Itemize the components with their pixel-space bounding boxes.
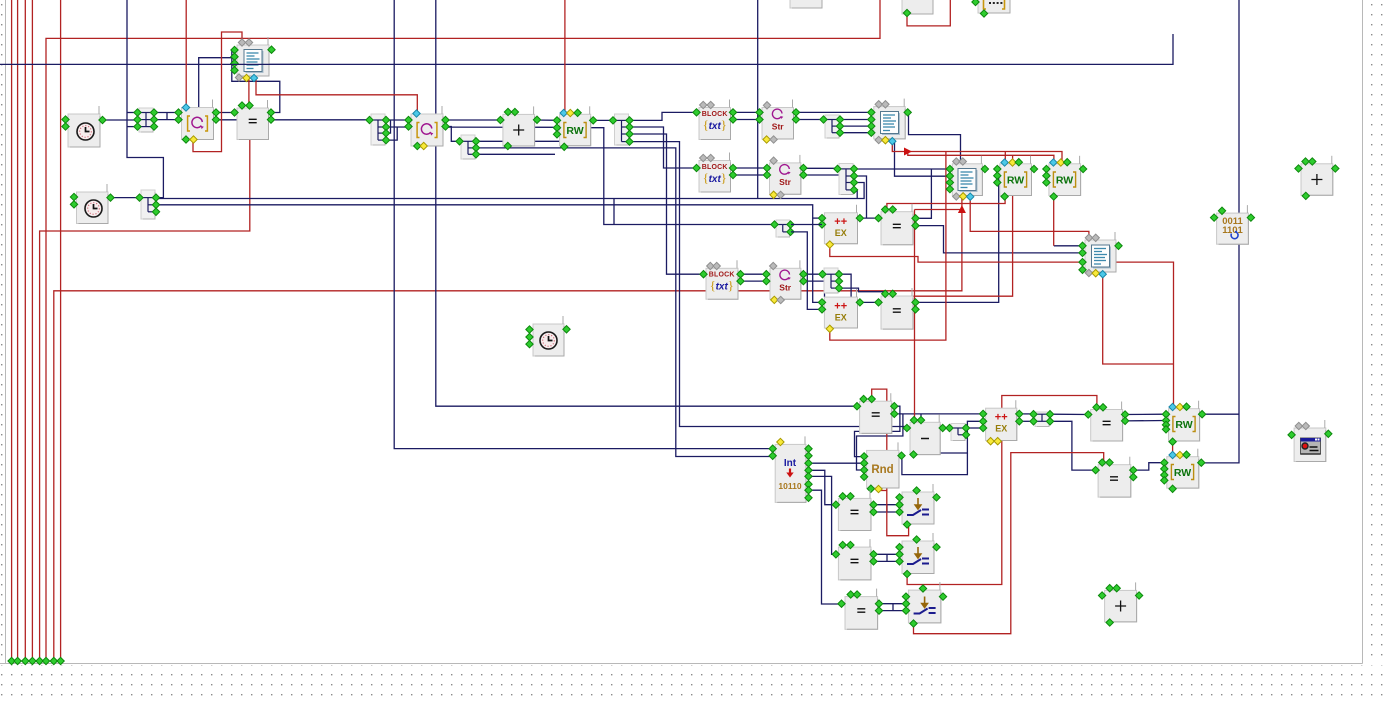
wire navy stub to junction J1 row1	[127, 112, 137, 114]
wire navy equals U38 to switch U39 row1	[879, 603, 906, 605]
wire navy equals U40 to RW U41 row2	[1124, 420, 1165, 422]
document block U14	[874, 107, 905, 139]
wire red branch to RW U23 cyan	[1004, 152, 1006, 162]
binary block U27	[1217, 213, 1249, 244]
wire navy J8 row2 to EX U17 pin2	[791, 232, 822, 310]
svg-text:Int: Int	[784, 458, 797, 469]
wire navy RW U9 pin2 down-bus to junction J8	[591, 128, 772, 225]
BLOCK txt U20	[706, 268, 738, 299]
clock U1	[68, 114, 100, 147]
svg-text:RW: RW	[1007, 175, 1024, 187]
RW block U43	[1167, 457, 1199, 488]
wire navy equals U36 to switch U37 row1	[873, 553, 901, 555]
RW block U41	[1169, 409, 1200, 441]
wire navy equals U16 pin2 to doc U25 pin2	[915, 226, 1082, 253]
svg-text:Rnd: Rnd	[871, 464, 893, 476]
wire navy J3 row2 long bus to Int U30 pin2	[477, 148, 773, 457]
wire navy J9 bottom stub to EX U17	[824, 292, 826, 297]
wire navy J4 row4 long to subtract U28	[630, 142, 908, 428]
wire navy loop U4 to comparator U5	[214, 112, 237, 114]
svg-text:RW: RW	[1174, 467, 1191, 479]
wire navy J4 row2 to BLOCK U12	[630, 127, 695, 168]
wire navy U38-U39 crossbar	[892, 604, 894, 611]
partial block U47 top	[902, 0, 933, 14]
sheet border right edge	[1362, 0, 1364, 664]
wire red Rnd U31 yellow stub	[879, 489, 887, 491]
add block U45 bottom	[1105, 590, 1137, 622]
wire red left riser 6 to top edge	[46, 0, 880, 661]
wire navy J6 row3 to doc U14	[841, 132, 871, 134]
comparator U5 equals	[237, 108, 269, 140]
wire red switch U39 bottom to equals U42 top	[914, 453, 1104, 634]
switch block U35	[902, 492, 934, 524]
array block U48 top	[978, 0, 1010, 13]
junction J5	[141, 190, 155, 219]
wire red RW U41 bottom to RW U43 cyan	[1172, 442, 1174, 456]
wire navy subtract U28 to junction J10	[942, 427, 950, 429]
wire navy branch riser x=758 to top edge	[757, 0, 759, 199]
wire navy EX U17 to equals U18	[859, 301, 877, 303]
wire navy equals U18 to RW U23 pin2	[915, 178, 999, 303]
equals block U42	[1098, 465, 1131, 497]
wire navy N1 overlay across doc U3	[230, 63, 300, 65]
wire navy J2 to loop U7 row1	[385, 119, 411, 121]
wire navy equals U38 to switch U39 row2	[879, 610, 906, 612]
BLOCK txt U10	[699, 108, 731, 140]
wire navy J10 row1 to EX U33 pin3	[967, 427, 983, 429]
wire navy Int U30 pin4 to equals U34	[808, 470, 835, 504]
svg-text:++: ++	[834, 301, 847, 313]
wire red doc U25 pin3 stub	[1081, 261, 1083, 263]
wire navy N1 long bus y=64	[0, 34, 1173, 64]
svg-text:Str: Str	[779, 177, 792, 187]
wire navy doc U3 pin2 to loop U4 top	[199, 58, 236, 108]
wire navy RW U9 bottom stub	[563, 146, 565, 148]
wire navy long bus J5 row1 to junction J7 with riser to top	[155, 183, 864, 199]
wire navy stub junction J1 row3	[127, 126, 137, 128]
wire navy J1-Q1 crossbar	[166, 113, 168, 120]
wire navy J7 row2 to EX/equals tee	[855, 176, 867, 218]
wire navy J2 row2 bus to RW U9 pin2	[385, 126, 560, 128]
junction J4	[615, 114, 629, 145]
subtract block U28	[910, 422, 940, 454]
wire navy Int U30 pin7 to equals U38	[808, 490, 841, 604]
svg-text:}: }	[728, 278, 734, 293]
wire navy RW U41 right to riser	[1201, 413, 1239, 415]
svg-text:RW: RW	[566, 125, 583, 137]
wire navy long riser x=436 to equals U26 input	[436, 0, 857, 406]
wireless arrow marker A2	[958, 205, 966, 213]
document block U3	[237, 45, 269, 76]
wire navy EX U33 to junction J11 row1	[1018, 413, 1031, 415]
svg-text:10110: 10110	[778, 481, 801, 491]
junction J11	[1035, 412, 1049, 427]
svg-text:txt: txt	[709, 121, 722, 132]
wire navy long bus J5 row2 to EX U15 and EX U17	[155, 205, 823, 303]
RW block U24	[1049, 164, 1081, 196]
junction J1	[139, 108, 153, 132]
wire navy clock U2 to junction J5	[108, 197, 137, 199]
svg-text:++: ++	[834, 216, 847, 228]
wire navy J3 row1 to RW U9 edge	[477, 140, 560, 142]
wire navy RW U24 bottom junction to doc U25 pin1	[1054, 245, 1081, 247]
svg-text:EX: EX	[995, 424, 1007, 434]
add block U29 top right	[1301, 164, 1333, 196]
Str block U13	[770, 163, 801, 194]
wire navy add U8 to RW U9	[535, 119, 560, 121]
wire navy J4 row3 to BLOCK U20	[630, 134, 702, 274]
wire navy equals U40 to RW U41 row1	[1124, 413, 1165, 415]
svg-text:txt: txt	[709, 174, 722, 185]
wire navy equals U34 to switch U35 row1	[873, 504, 901, 506]
workspace dot grid left strip	[0, 0, 5, 663]
workspace dot grid bottom strip	[0, 665, 1389, 703]
wire red equals U26 top loop down to switch U35 bottom	[872, 389, 909, 536]
wire navy doc U14 right to doc U22 top	[905, 112, 960, 161]
BLOCK txt U12	[699, 161, 731, 193]
wire navy J10 row2 net to subtract bottom and Rnd right	[914, 435, 968, 453]
EX block U17	[824, 297, 857, 328]
wire red branch down to equals U18 top pin2	[893, 155, 1013, 296]
wire navy J11 row2 to equals U42	[1051, 421, 1096, 470]
clock U19	[533, 324, 564, 356]
wire red riser to RW U9 top pins	[564, 0, 566, 113]
switch block U37	[902, 541, 934, 574]
EX block U33	[986, 408, 1017, 440]
document block U25	[1085, 240, 1116, 272]
wire navy branch to Rnd U31 right pin	[901, 453, 968, 475]
wire navy RW U9 to junction J4	[591, 119, 613, 121]
wire navy EX U33 to junction J11 row2	[1018, 420, 1031, 422]
wire red branch to doc U25 cyan pin	[1103, 274, 1174, 365]
wire red doc U3 yellow pin to comparator U5 top	[248, 76, 250, 106]
wire red second bus to RW U24 cyan	[908, 152, 1054, 162]
wire red left riser 5 to comparator U5 bottom	[40, 140, 250, 662]
wire navy Str U21 row2 to J9 edge	[803, 280, 824, 282]
wire navy EX U15 to equals U16	[859, 217, 877, 219]
wire red left riser 3	[24, 0, 26, 661]
svg-text:RW: RW	[1056, 175, 1073, 187]
wire navy long riser x=1239 to RW U43 right	[1200, 0, 1239, 463]
equals block U26	[860, 401, 892, 433]
RW block U23	[1000, 164, 1032, 196]
sheet border left edge	[5, 0, 7, 664]
junction J2	[371, 114, 385, 145]
wire navy doc U14 bottom to doc U22 pin2	[895, 140, 948, 176]
wire navy Str U11 to doc U14 row1	[796, 111, 871, 113]
wire navy loop U4 row2 bus to junction J2	[214, 119, 369, 121]
svg-text:Str: Str	[772, 122, 785, 132]
wire navy BLOCK U20 to Str U21 row2	[740, 280, 765, 282]
wire red left riser 4	[31, 0, 33, 661]
loop block U4	[182, 108, 214, 140]
EX block U15	[824, 213, 857, 244]
wire navy subtract U28 top pin2 stub	[920, 414, 922, 420]
wire red left riser 8	[60, 0, 62, 661]
wire navy J1 to loop U4 row1	[152, 112, 178, 114]
wire navy J8 row1 to EX U15 pin2	[791, 224, 822, 226]
equals block U16	[881, 212, 913, 245]
wire navy loop U7 pin2 jog to junction J3	[443, 127, 457, 142]
svg-text:Str: Str	[779, 283, 792, 293]
junction J3	[461, 135, 475, 159]
wire navy Int U30 pin5 to equals U36	[808, 476, 835, 554]
wire red up-arrow branch to subtract U28 top	[915, 209, 962, 211]
window block U44	[1294, 428, 1326, 462]
bottom wire end diamonds	[8, 657, 15, 664]
wire navy BLOCK U10 to Str U11 row2	[731, 119, 760, 121]
wire navy J9 row1 into EX U17 top	[840, 274, 852, 297]
wire navy equals U42 to RW U43	[1132, 463, 1165, 470]
switch block U39	[908, 590, 941, 623]
add block U8	[503, 114, 535, 146]
svg-text:}: }	[721, 170, 727, 185]
wire red top block U46 link	[907, 0, 950, 26]
wire red doc U22 cyan to doc U25 gray pin	[970, 197, 1089, 239]
RW block U9	[560, 114, 591, 145]
wire navy BLOCK U12 to Str U13 row1	[731, 167, 766, 169]
wire navy T-branch to equals U16 right pin1	[915, 169, 932, 218]
wire navy J7 row1 to doc U22 pin1	[855, 168, 948, 170]
wire red left riser 1	[11, 0, 13, 661]
wire navy J3 row3 dangling	[477, 153, 556, 155]
wire navy Str U13 to junction J7	[803, 167, 836, 169]
wire navy J6 row2 to doc U14	[841, 125, 871, 127]
sheet border bottom edge	[0, 663, 1363, 665]
wire navy doc U3 pin1 to comparator U5 right	[232, 50, 280, 113]
wire red doc U3 gray pin to loop U4 yellow pin	[193, 32, 242, 152]
junction J9	[824, 268, 838, 293]
loop block U7	[411, 114, 443, 146]
svg-text:1101: 1101	[1222, 225, 1243, 236]
wire navy BLOCK U20 to Str U21 row1	[740, 273, 765, 275]
svg-text:++: ++	[995, 412, 1008, 424]
wire navy U34-U35 crossbar	[886, 505, 888, 512]
wire navy J11 row1 to equals U40	[1051, 413, 1089, 415]
wire navy equals U26 right wrap to Rnd U31 pin1	[855, 406, 900, 456]
wire navy clock U1 to junction J1	[100, 119, 137, 121]
wire navy add U8 bottom stub	[507, 146, 509, 148]
svg-text:EX: EX	[835, 313, 847, 323]
wire navy equals U26 pin2 to EX U33 pin1	[894, 413, 983, 415]
wire navy branch up to EX U33 pin2	[967, 421, 982, 435]
wire navy J7 pin4 stub	[853, 190, 857, 199]
wire navy Str U21 to junction J9	[803, 273, 822, 275]
svg-text:txt: txt	[716, 282, 729, 293]
wire navy Str U11 to junction J6	[796, 119, 822, 121]
wire red EX U15 yellow to doc U25 pin3 bus	[830, 244, 1174, 407]
wireless arrow marker A1	[904, 148, 912, 156]
clock U2	[77, 192, 109, 224]
wire navy x=127 riser to junction J5	[127, 0, 163, 198]
wire red RW U23 bottom to equals U16 top	[887, 197, 1005, 210]
wire navy equals U36 to switch U37 row2	[873, 560, 901, 562]
equals block U34	[838, 498, 871, 530]
Str block U11	[762, 108, 794, 140]
Str block U21	[770, 268, 801, 299]
wire navy long riser x=394 to Int U30 pin1	[394, 0, 772, 449]
wire navy stub to EX U15 pin1	[813, 217, 824, 219]
equals block U36	[838, 547, 871, 580]
wire navy J2 pin3 jog	[385, 120, 391, 133]
wire red RW U24 bottom down	[1053, 197, 1055, 246]
partial block U46 top	[790, 0, 822, 8]
junction J8	[776, 220, 790, 237]
wire red left riser 7 to text-file U22 yellow pin	[54, 195, 962, 661]
junction J7	[839, 164, 853, 195]
equals block U40	[1091, 410, 1123, 442]
wire navy J2 pin4 jog	[385, 127, 397, 140]
wire navy loop U7 to add U8	[443, 119, 502, 121]
wire red doc U14 cyan net to RW tops	[892, 141, 1062, 162]
wire red branch to EX U17 yellow	[830, 152, 946, 341]
wire navy crosslink x=614	[613, 199, 615, 225]
wire navy BLOCK U10 to Str U11 row1	[731, 111, 760, 113]
workspace dot grid right strip	[1364, 0, 1389, 663]
junction J6	[825, 115, 839, 138]
equals block U38	[845, 597, 878, 630]
equals block U18	[881, 296, 913, 329]
wire navy U36-U37 crossbar	[886, 554, 888, 561]
Int block U30	[775, 444, 806, 502]
wire navy BLOCK U12 to Str U13 row2	[731, 174, 766, 176]
wire navy J9 row3 to equals U18 top pin	[840, 288, 886, 294]
wire navy Str U13 row2 to J7 edge	[803, 174, 840, 176]
document block U22	[952, 164, 982, 196]
wire navy J4 row1 to BLOCK U10	[630, 112, 695, 120]
wire navy Int U30 pin3 to Rnd U31 pin2	[808, 462, 864, 464]
svg-text:RW: RW	[1175, 419, 1192, 431]
wire red doc U3 cyan pin to loop U7 cyan	[256, 76, 417, 112]
wire red left riser 2	[17, 0, 19, 661]
wire navy J1 to loop U4 row2	[152, 119, 178, 121]
Rnd block U31	[867, 450, 899, 488]
wire navy equals U34 to switch U35 row2	[873, 511, 901, 513]
svg-text:}: }	[721, 117, 727, 132]
svg-text:EX: EX	[835, 228, 847, 238]
wire navy second wrap to Rnd U31 pin3	[857, 414, 903, 470]
wire red switch U37 bottom to equals U40 top	[907, 396, 1097, 585]
wire navy J6 row1 to doc U14	[841, 119, 871, 121]
wire red riser to loop U4 cyan pin	[185, 0, 187, 106]
junction J10	[951, 424, 965, 441]
